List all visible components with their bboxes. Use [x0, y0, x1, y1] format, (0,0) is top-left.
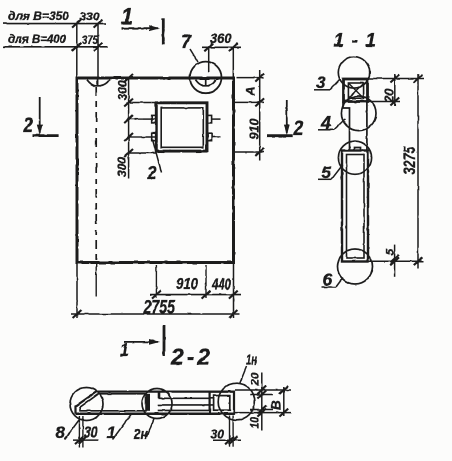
tab lower-right: [207, 133, 212, 141]
web step: [158, 392, 161, 399]
dim 30 left: [78, 416, 80, 448]
leader 2 to tab: [153, 140, 162, 173]
detail circle 3: [338, 57, 369, 88]
embedded 1н inner: [214, 396, 230, 411]
dim line B: [283, 387, 285, 416]
dim line 20/10: [261, 373, 263, 431]
extension line loop axis up: [97, 24, 99, 78]
extension 360 right / panel right edge up: [232, 47, 234, 78]
svg-text:440: 440: [211, 276, 231, 293]
ext inner top: [250, 394, 273, 396]
svg-text:2: 2: [147, 163, 157, 183]
extension 360 left: [208, 47, 210, 72]
svg-text:330: 330: [80, 11, 101, 23]
svg-text:для В=400: для В=400: [8, 34, 67, 46]
svg-text:20: 20: [250, 372, 262, 387]
tab upper-right: [207, 115, 212, 123]
dim line A/910: [259, 70, 261, 160]
svg-text:5: 5: [385, 248, 397, 255]
ext top: [235, 389, 291, 391]
svg-text:А: А: [246, 87, 258, 97]
opening outer square: [156, 103, 207, 151]
cut trace bar: [33, 134, 59, 137]
svg-text:30: 30: [84, 424, 98, 441]
chain line: [128, 78, 130, 179]
detail circle 8: [70, 388, 103, 421]
profile top line: [97, 391, 235, 393]
dashed axis line: [95, 87, 97, 262]
detail circle 2н: [142, 389, 172, 419]
svg-text:10: 10: [250, 416, 262, 428]
ext tab lines to chain: [129, 118, 143, 120]
svg-text:2-2: 2-2: [170, 344, 210, 370]
embedded 1н outer: [210, 392, 234, 414]
svg-text:1 - 1: 1 - 1: [334, 31, 377, 52]
ext 910 right down: [205, 265, 207, 298]
extension line left edge up: [76, 24, 78, 78]
svg-text:1: 1: [120, 340, 129, 360]
svg-text:2: 2: [23, 114, 34, 137]
left chamfer outer: [76, 392, 97, 414]
ext inner bottom: [250, 409, 273, 411]
svg-text:300: 300: [115, 157, 129, 177]
lifting loop in circle 7: [196, 79, 217, 86]
svg-text:В: В: [269, 400, 284, 410]
body top notch: [354, 148, 361, 152]
ext right edge down: [233, 263, 235, 319]
svg-text:20: 20: [382, 88, 397, 104]
svg-text:30: 30: [211, 426, 225, 441]
dim 20 top right of 1-1: [368, 78, 424, 80]
panel outline: [77, 78, 234, 263]
joint right line: [366, 102, 368, 152]
dim 5 bottom right of 1-1: [368, 260, 424, 262]
svg-text:2: 2: [293, 117, 304, 140]
cut trace bar: [267, 134, 293, 137]
arrow line: [122, 27, 159, 29]
dim line 910/440: [150, 294, 241, 296]
ext opening top right: [234, 101, 265, 103]
detail circle 1н: [218, 383, 255, 420]
cut trace bar: [162, 18, 165, 45]
svg-text:для В=350: для В=350: [8, 11, 70, 23]
arrow down: [39, 97, 41, 133]
svg-text:2н: 2н: [133, 426, 148, 443]
left chamfer inner: [80, 394, 146, 411]
arrow line: [124, 341, 158, 343]
top embedded outer: [344, 79, 368, 102]
cut trace bar: [163, 325, 166, 356]
dim line 330 row: [3, 23, 106, 25]
joint step left: [343, 102, 350, 152]
detail circle 4: [341, 96, 376, 131]
dim line 2755: [71, 313, 240, 315]
ext opening left down: [155, 265, 157, 298]
leader 7: [190, 49, 198, 62]
svg-text:3275: 3275: [400, 146, 419, 174]
web upper pair: [159, 397, 214, 399]
dim 30 right: [229, 416, 231, 447]
body outer: [342, 151, 368, 262]
axis extension below panel: [95, 263, 97, 297]
detail circle 6: [338, 249, 373, 284]
svg-text:375: 375: [82, 33, 98, 47]
svg-text:910: 910: [176, 276, 198, 293]
svg-text:300: 300: [116, 80, 130, 100]
left piece end wall: [146, 394, 150, 411]
svg-text:1: 1: [121, 4, 133, 31]
ext bottom: [235, 412, 291, 414]
profile bottom line: [76, 413, 235, 416]
tab lower-left: [152, 133, 157, 141]
svg-text:1: 1: [107, 423, 116, 442]
tab upper-left: [152, 115, 157, 123]
svg-text:1н: 1н: [246, 352, 257, 369]
lifting loop left: [87, 79, 110, 86]
opening inner square: [161, 108, 203, 147]
svg-text:910: 910: [247, 118, 262, 140]
ext opening bottom right: [234, 151, 265, 153]
ext left edge down: [76, 263, 78, 319]
detail circle 7: [190, 62, 222, 94]
svg-text:8: 8: [56, 423, 66, 442]
ext opening bottom to chain: [129, 152, 157, 154]
arrow down: [286, 100, 288, 133]
top embedded inner box with X: [348, 83, 363, 98]
ext opening top to chain: [129, 102, 157, 104]
detail circle 5: [338, 141, 371, 174]
body inner: [347, 155, 365, 259]
svg-text:2755: 2755: [143, 298, 176, 319]
dim 3275: [417, 74, 419, 269]
dim line 375 row: [3, 46, 108, 48]
web lower line: [158, 409, 210, 411]
ext top edge right: [237, 77, 265, 79]
